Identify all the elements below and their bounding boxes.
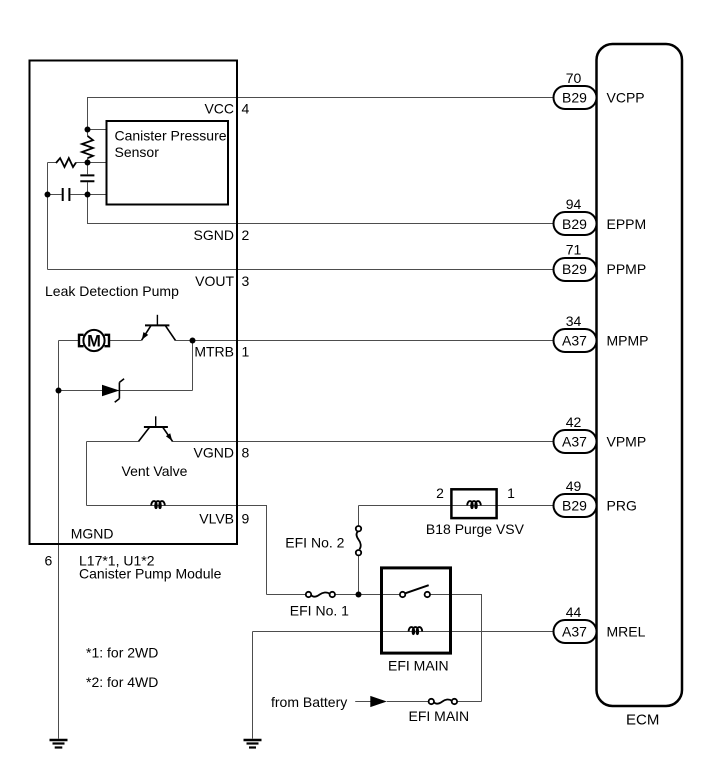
svg-text:*1: for 2WD: *1: for 2WD [86, 645, 158, 661]
svg-text:VCPP: VCPP [607, 90, 645, 106]
svg-text:Vent Valve: Vent Valve [122, 463, 188, 479]
svg-text:B29: B29 [562, 90, 587, 106]
svg-text:1: 1 [507, 485, 515, 501]
svg-text:Canister Pump Module: Canister Pump Module [79, 566, 222, 582]
svg-text:EFI No. 1: EFI No. 1 [290, 603, 349, 619]
svg-text:ECM: ECM [626, 712, 659, 729]
svg-text:8: 8 [242, 445, 250, 461]
svg-text:B18 Purge VSV: B18 Purge VSV [426, 521, 525, 537]
svg-text:from Battery: from Battery [271, 694, 347, 710]
svg-text:Leak Detection Pump: Leak Detection Pump [45, 283, 179, 299]
svg-text:MTRB: MTRB [194, 344, 234, 360]
svg-text:MGND: MGND [71, 526, 114, 542]
svg-text:MPMP: MPMP [607, 333, 649, 349]
svg-text:VPMP: VPMP [607, 434, 647, 450]
svg-text:PRG: PRG [607, 498, 637, 514]
svg-text:B29: B29 [562, 216, 587, 232]
svg-text:M: M [87, 332, 101, 350]
svg-text:VOUT: VOUT [195, 273, 234, 289]
svg-text:71: 71 [566, 242, 582, 258]
svg-text:A37: A37 [562, 333, 587, 349]
svg-text:MREL: MREL [607, 624, 646, 640]
svg-text:B29: B29 [562, 261, 587, 277]
svg-text:34: 34 [566, 313, 582, 329]
svg-text:3: 3 [242, 273, 250, 289]
svg-text:*2: for 4WD: *2: for 4WD [86, 674, 158, 690]
svg-text:2: 2 [242, 227, 250, 243]
svg-text:VCC: VCC [204, 101, 234, 117]
svg-text:VLVB: VLVB [199, 510, 234, 526]
svg-text:VGND: VGND [194, 445, 234, 461]
svg-text:42: 42 [566, 414, 582, 430]
svg-text:EFI MAIN: EFI MAIN [388, 658, 449, 674]
svg-text:EPPM: EPPM [607, 216, 647, 232]
svg-text:EFI MAIN: EFI MAIN [409, 708, 470, 724]
svg-text:1: 1 [242, 344, 250, 360]
svg-text:4: 4 [242, 101, 250, 117]
svg-text:Sensor: Sensor [115, 144, 160, 160]
svg-text:9: 9 [242, 510, 250, 526]
svg-text:B29: B29 [562, 498, 587, 514]
svg-text:2: 2 [436, 485, 444, 501]
svg-text:70: 70 [566, 70, 582, 86]
svg-text:PPMP: PPMP [607, 261, 647, 277]
svg-text:A37: A37 [562, 434, 587, 450]
svg-text:49: 49 [566, 478, 582, 494]
svg-text:SGND: SGND [194, 227, 234, 243]
svg-text:A37: A37 [562, 624, 587, 640]
svg-text:44: 44 [566, 604, 582, 620]
svg-text:Canister Pressure: Canister Pressure [115, 128, 227, 144]
svg-text:6: 6 [45, 553, 53, 569]
svg-text:94: 94 [566, 196, 582, 212]
svg-text:EFI No. 2: EFI No. 2 [285, 535, 344, 551]
